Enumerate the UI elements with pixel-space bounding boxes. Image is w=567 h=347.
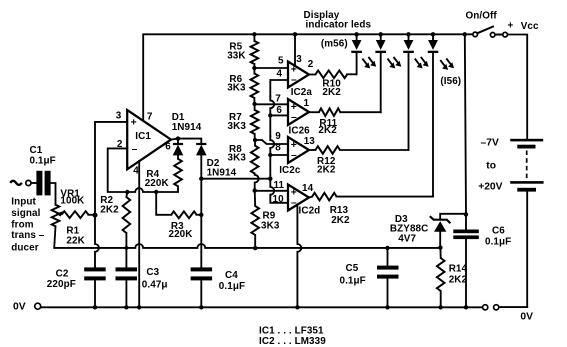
battery -7V to +20V [478,137,543,307]
capacitor C6 [453,226,511,308]
svg-text:2K2: 2K2 [331,215,350,226]
svg-text:2K2: 2K2 [317,164,336,175]
svg-text:IC2d: IC2d [299,206,321,217]
resistor R5 [227,34,258,68]
svg-text:220pF: 220pF [47,279,76,290]
svg-text:C6: C6 [492,226,505,237]
wire to IC2a pin5 [254,67,288,69]
svg-text:11: 11 [274,180,285,191]
node C6 on 0V rail [464,305,468,309]
resistor R8 [228,140,259,191]
wire VR1 bottom to bias rail [54,226,91,248]
wire D2 node down to R3/C4 [200,179,202,215]
wire C2 lead from signal node (hops bias rail) [95,215,99,267]
resistor R3 [156,192,201,240]
svg-text:IC26: IC26 [289,125,311,136]
svg-text:+: + [131,118,137,129]
resistor R10 [309,71,357,99]
svg-text:IC2c: IC2c [279,165,301,176]
svg-text:2K2: 2K2 [100,205,119,216]
svg-text:4: 4 [277,69,283,80]
svg-text:2K2: 2K2 [318,125,337,136]
wire IC1 pin4 down to 0V [138,161,140,307]
resistor R11 [309,108,381,135]
comparator IC2b [275,93,310,136]
capacitor C4 [191,267,246,307]
svg-text:indicator leds: indicator leds [306,19,372,30]
svg-text:+20V: +20V [478,181,502,192]
svg-text:3K3: 3K3 [227,82,246,93]
node signal/D2 junction [268,177,272,181]
svg-text:–: – [291,150,297,161]
input terminal [10,180,36,185]
diode D2 1N914 [196,143,237,179]
node R3 right [199,213,203,217]
wire IC2c pin8 branch [270,154,288,156]
node R7/R8 [253,138,257,142]
wire bias rail (hops pin4 line and C4 line) [92,244,441,248]
0V rail bottom [13,302,533,323]
label +Vcc [508,21,539,32]
svg-text:0V: 0V [520,312,533,323]
resistor R1 [62,211,95,246]
resistor R4 [145,155,182,192]
svg-text:1N914: 1N914 [172,122,202,133]
svg-text:C2: C2 [56,269,69,280]
resistor R9 [251,191,279,249]
svg-text:R14: R14 [449,263,468,274]
svg-text:–: – [291,75,297,86]
capacitor C5 [340,248,399,307]
svg-text:5: 5 [278,55,284,66]
node C2 on 0V rail [93,305,97,309]
wire IC2d ground pin down (hops bias rail) [297,205,301,308]
svg-text:7: 7 [275,93,281,104]
svg-text:0.1μF: 0.1μF [30,156,56,167]
node R6/R7 [252,102,256,106]
svg-text:On/Off: On/Off [466,11,498,22]
svg-text:2: 2 [308,59,314,70]
svg-text:+: + [508,21,514,32]
svg-text:0.1μF: 0.1μF [485,236,511,247]
wire top supply rail [143,34,527,139]
svg-text:Input: Input [11,197,36,208]
svg-text:ducer: ducer [11,243,38,254]
node C5 on 0V rail [385,305,389,309]
capacitor C3 [116,267,168,307]
svg-text:0.1μF: 0.1μF [340,275,366,286]
svg-text:13: 13 [304,136,316,147]
node D2 anode [199,177,203,181]
label IC types [259,326,326,347]
node pin4 on 0V rail [137,305,141,309]
svg-text:100K: 100K [60,196,85,207]
node C5 top on bias rail [385,246,389,250]
node VR1 wiper junction [93,213,98,218]
wire IC1 pin2 feedback loop (hops pin4 line) [108,148,157,192]
resistor R14 [437,248,468,308]
node C4 on 0V rail [199,305,203,309]
svg-text:(I56): (I56) [440,76,461,87]
svg-text:C1: C1 [30,145,43,156]
potentiometer VR1 [52,188,85,226]
signal line segment with hop over pin11 wire [270,175,288,203]
node IC1 output [176,136,180,140]
node LED4 top [431,32,435,36]
node LED2 top [379,32,383,36]
svg-text:C4: C4 [225,270,238,281]
zener D3 BZY88C 4V7 [390,214,466,248]
wire to IC2b pin7 (hops signal line) [255,103,288,105]
node R9 bottom on bias rail [253,246,257,250]
svg-text:IC2a: IC2a [291,87,313,98]
svg-text:220K: 220K [145,178,170,189]
svg-text:–: – [132,144,138,155]
svg-text:trans –: trans – [11,230,44,241]
svg-text:33K: 33K [227,51,246,62]
svg-text:3K3: 3K3 [228,121,247,132]
svg-text:3K3: 3K3 [261,220,280,231]
node R5 top [252,32,256,36]
node R5/R6 [252,66,256,70]
svg-text:0.1μF: 0.1μF [219,281,245,292]
label Input signal from transducer [11,197,44,254]
svg-text:Vcc: Vcc [521,21,539,32]
wire to IC2c pin9 [255,140,288,144]
node ground pin on 0V rail [295,305,299,309]
led LED1 [351,34,376,74]
svg-text:C5: C5 [346,263,359,274]
svg-text:to: to [486,160,496,171]
label Display indicator leds [304,10,372,31]
node C3 on 0V rail [124,305,128,309]
wire Vcc branch down to D3/C6 [465,34,466,229]
svg-text:2K2: 2K2 [449,275,468,286]
comparator IC2c [275,131,315,176]
svg-text:0.47μ: 0.47μ [142,279,168,290]
svg-text:IC1: IC1 [135,131,151,142]
opamp IC1 [116,110,172,177]
svg-text:signal: signal [11,208,40,219]
node IC2b pin6 [268,113,272,117]
svg-text:6: 6 [165,142,171,153]
resistor R12 [309,146,409,175]
resistor R2 [100,192,130,267]
wire IC1 output node [171,139,201,143]
node R2 top [125,190,129,194]
svg-text:C3: C3 [146,267,159,278]
svg-text:–: – [291,198,297,209]
led LED3 [403,34,428,150]
svg-text:0V: 0V [13,302,26,313]
svg-text:1N914: 1N914 [207,167,237,178]
wire IC2a pin4 to signal line [270,80,288,96]
node bias/C3 junction [125,246,129,250]
signal line segment with hop over pin9 wire [270,136,274,175]
node D3/C6 junction [464,212,468,216]
led LED2 [375,34,401,112]
node IC2c pin8 [268,153,272,157]
svg-text:(m56): (m56) [321,39,348,50]
svg-text:3K3: 3K3 [228,153,247,164]
node R8/R9 [253,188,257,192]
led LED4 [428,34,454,196]
wire IC1 pin3 input [95,122,127,215]
resistor R13 [309,193,433,226]
svg-text:3: 3 [296,54,302,65]
wire C4 lead down (from R3 node) [200,215,202,268]
resistor R6 [227,68,258,104]
capacitor C1 [30,145,56,205]
svg-text:14: 14 [302,183,314,194]
node D3 anode / bias rail end [438,245,442,249]
node R4/R3 feedback [154,190,158,194]
switch On/Off [466,11,508,38]
svg-text:1: 1 [304,98,310,109]
wire D2 node to comparator signal line [201,178,270,180]
svg-text:2K2: 2K2 [322,87,341,98]
svg-text:7: 7 [147,112,153,123]
svg-text:3: 3 [116,110,122,121]
signal line segment with hop over pin7 wire [270,96,274,136]
resistor R7 [228,104,259,140]
node IC2a pin3 top [293,32,297,36]
comparator IC2a [277,54,314,98]
svg-text:4V7: 4V7 [398,233,416,244]
wire IC2b pin6 branch [270,114,288,116]
node LED3 top [406,32,410,36]
node switch branch [463,32,467,36]
svg-text:220K: 220K [169,229,194,240]
node R14 on 0V rail [439,305,443,309]
svg-text:22K: 22K [66,236,85,247]
svg-text:6: 6 [276,105,282,116]
wire IC2a pin3 to rail [294,34,296,66]
diode D1 1N914 [172,112,202,155]
svg-text:–: – [291,112,297,123]
svg-text:8: 8 [275,143,281,154]
capacitor C2 [47,267,106,307]
wire to IC2d pin11 [255,190,288,192]
svg-text:IC2 . . . LM339: IC2 . . . LM339 [259,336,326,347]
svg-text:–7V: –7V [481,137,499,148]
node LED1 top [354,32,358,36]
svg-text:9: 9 [275,131,281,142]
comparator IC2d [273,180,321,217]
